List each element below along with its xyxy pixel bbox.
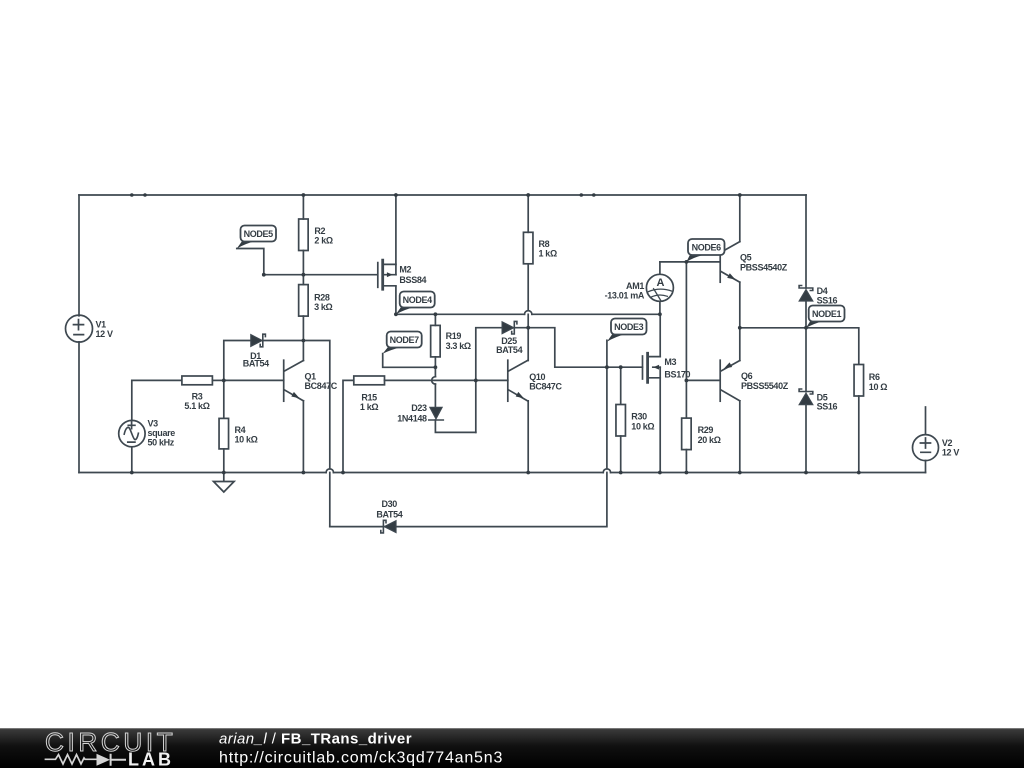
svg-text:NODE4: NODE4 <box>403 295 433 305</box>
junction R30 top <box>619 365 623 369</box>
wire NODE6 drop to Q6 base row <box>685 262 687 381</box>
junction Q6 collector at bottom rail <box>738 471 742 475</box>
junction NODE5 at gate row <box>262 273 266 277</box>
svg-text:12 V: 12 V <box>96 329 113 339</box>
wire R2 top stub <box>302 195 304 219</box>
wire R2 bottom stub <box>302 251 304 275</box>
svg-text:PBSS4540Z: PBSS4540Z <box>740 263 788 273</box>
junction top rail segment dot b <box>143 193 147 197</box>
svg-text:NODE6: NODE6 <box>692 243 722 253</box>
svg-text:BAT54: BAT54 <box>496 345 522 355</box>
resistor R8 <box>523 232 533 263</box>
resistor R15 <box>354 376 385 385</box>
junction top rail segment dot d <box>592 193 596 197</box>
junction Q5 Q6 output <box>738 326 742 330</box>
junction R19 bottom NODE7 <box>434 365 438 369</box>
svg-text:R4: R4 <box>235 425 246 435</box>
wire R30 bottom stub <box>620 436 622 473</box>
wire NODE5 L-stub <box>237 249 264 275</box>
junction M2 source at rail <box>394 193 398 197</box>
svg-text:R15: R15 <box>361 392 377 402</box>
wire R8 bottom leg to D25 junction <box>527 264 529 328</box>
wire R19 bottom junction down to D23 <box>434 367 436 407</box>
svg-text:-13.01 mA: -13.01 mA <box>605 290 645 300</box>
junction R2 R28 gate row <box>302 273 306 277</box>
junction Q6 base R29 <box>685 379 689 383</box>
wire R28 bottom stub <box>302 316 304 340</box>
junction NODE4 at AM1 <box>658 312 662 316</box>
wire Q1 emitter down to bottom rail <box>302 401 304 473</box>
svg-text:1 kΩ: 1 kΩ <box>360 402 378 412</box>
svg-text:1 kΩ: 1 kΩ <box>539 249 557 259</box>
svg-text:BC847C: BC847C <box>529 381 562 391</box>
wire Q5 emitter down to output junction <box>739 282 741 328</box>
svg-text:20 kΩ: 20 kΩ <box>698 435 721 445</box>
junction NODE4 at M2 drain <box>394 312 398 316</box>
resistor R19 <box>431 325 441 357</box>
wire Q1 collector up to D1 row <box>302 341 304 361</box>
wire NODE1 to R6 branch <box>806 328 859 365</box>
wire R4 top stub <box>223 380 225 418</box>
wire NODE6 row <box>660 261 720 263</box>
junction M3 source at bottom rail <box>658 471 662 475</box>
wire R15 left leg <box>343 380 354 472</box>
svg-text:V2: V2 <box>942 438 953 448</box>
svg-text:R2: R2 <box>314 226 325 236</box>
MOSFET M2 BSS84 <box>378 260 396 289</box>
wire NODE1 junction to D5 <box>805 328 807 392</box>
junction top rail segment dot a <box>130 193 134 197</box>
svg-text:PBSS5540Z: PBSS5540Z <box>741 381 789 391</box>
resistor R30 <box>616 405 626 437</box>
wire M2 drain pin down to NODE4 <box>395 287 397 315</box>
svg-text:M2: M2 <box>399 265 411 275</box>
logo diode symbol <box>97 754 111 766</box>
node NODE1 <box>806 306 845 328</box>
svg-text:10 kΩ: 10 kΩ <box>235 435 258 445</box>
wire D5 anode to bottom rail <box>805 405 807 473</box>
wire D1 row junction right to D30 left leg <box>303 341 329 527</box>
wire R29 bottom stub <box>685 450 687 473</box>
node NODE7 <box>383 332 422 354</box>
svg-text:10 kΩ: 10 kΩ <box>631 422 654 432</box>
wire gate row NODE5 to M2 gate <box>264 274 377 276</box>
svg-text:3 kΩ: 3 kΩ <box>314 302 332 312</box>
resistor R28 <box>299 285 309 317</box>
logo resistor squiggle <box>45 755 97 764</box>
junction R4 ground at bottom rail <box>222 471 226 475</box>
wire D1 left leg up from base row <box>224 341 251 381</box>
svg-text:3.3 kΩ: 3.3 kΩ <box>446 341 471 351</box>
voltage source V1 <box>66 315 93 342</box>
diode D23 1N4148 <box>429 407 444 420</box>
junction output NODE1 <box>804 326 808 330</box>
svg-text:D30: D30 <box>381 499 397 509</box>
junction R8 top <box>526 193 530 197</box>
svg-text:5.1 kΩ: 5.1 kΩ <box>184 401 209 411</box>
diode D30 BAT54 <box>381 520 396 533</box>
wire M3 drain up to NODE4 junction <box>659 314 661 356</box>
voltage source V3 <box>119 420 145 446</box>
junction R3 R4 D1 base row <box>222 379 226 383</box>
wire NODE4 row <box>396 313 660 315</box>
transistor Q1 BC847C <box>284 360 304 401</box>
wire R4 bottom stub <box>223 449 225 473</box>
diode D4 SS16 <box>799 286 813 302</box>
svg-text:M3: M3 <box>664 357 676 367</box>
wire V3 bottom stub <box>131 447 133 473</box>
wire R29 top stub <box>685 380 687 418</box>
svg-text:2 kΩ: 2 kΩ <box>314 236 332 246</box>
wire Q6 emitter up to output junction <box>739 328 741 361</box>
resistor R3 <box>182 376 213 385</box>
svg-text:LAB: LAB <box>128 749 174 768</box>
junction NODE3 at M3 gate row <box>605 365 609 369</box>
MOSFET M3 BS170 <box>643 353 661 382</box>
wire AM1 top stub to NODE6 row <box>659 262 661 274</box>
svg-text:BAT54: BAT54 <box>376 510 402 520</box>
wire NODE7 L-stub <box>383 354 436 368</box>
svg-text:BSS84: BSS84 <box>399 275 426 285</box>
junction Q5 collector at rail <box>738 193 742 197</box>
wire D4 anode to NODE1 junction <box>805 301 807 328</box>
wire Q10 emitter down to bottom rail <box>527 401 529 473</box>
node NODE3 <box>607 319 647 342</box>
transistor Q10 BC847C <box>508 360 528 401</box>
ammeter AM1 <box>646 274 673 301</box>
node NODE6 <box>686 239 724 262</box>
wire R19 bottom stub <box>434 357 436 367</box>
transistor Q5 PBSS4540Z <box>720 242 740 283</box>
wire R15 right to Q10 base <box>385 379 508 381</box>
wire top supply rail <box>79 194 806 196</box>
wire hop NODE4 row over R8 leg <box>525 311 532 315</box>
wire D25 cathode to R8 junction <box>514 327 528 329</box>
svg-text:10 Ω: 10 Ω <box>869 382 887 392</box>
svg-text:http://circuitlab.com/ck3qd774: http://circuitlab.com/ck3qd774an5n3 <box>219 750 503 767</box>
svg-text:R19: R19 <box>446 331 462 341</box>
wire D30 anode to right leg up to M3 gate row <box>397 367 607 526</box>
svg-text:D23: D23 <box>411 403 427 413</box>
svg-text:50 kHz: 50 kHz <box>148 438 175 448</box>
wire hop bottom rail over D30 right leg <box>603 469 610 473</box>
wire right column rail to D4 <box>805 195 807 288</box>
svg-text:square: square <box>148 428 176 438</box>
junction top rail segment dot c <box>580 193 584 197</box>
svg-text:BS170: BS170 <box>664 370 690 380</box>
diode D1 BAT54 <box>251 334 266 347</box>
junction R6 at bottom rail <box>857 471 861 475</box>
voltage source V2 <box>913 435 939 461</box>
wire M2 source pin up to rail <box>395 195 397 275</box>
wire hop bottom rail over D30 left leg <box>326 469 333 473</box>
svg-text:BAT54: BAT54 <box>243 359 269 369</box>
ground <box>214 473 235 493</box>
resistor R6 <box>854 365 864 397</box>
svg-text:Q5: Q5 <box>740 253 752 263</box>
svg-text:AM1: AM1 <box>626 281 644 291</box>
svg-text:1N4148: 1N4148 <box>397 414 427 424</box>
wire D23 bottom L to x475 riser <box>435 420 475 432</box>
junction D25 R8 Q10 collector <box>526 326 530 330</box>
resistor R29 <box>682 418 692 450</box>
svg-text:Q1: Q1 <box>305 372 317 382</box>
svg-text:A: A <box>656 277 664 289</box>
wire AM1 bottom stub to NODE4 junction <box>659 302 661 315</box>
svg-text:R30: R30 <box>631 411 647 421</box>
svg-text:V3: V3 <box>148 419 159 429</box>
wire M3 source down to bottom rail <box>659 367 661 472</box>
resistor R4 <box>219 418 229 449</box>
junction R15 leg at bottom rail <box>341 471 345 475</box>
wire D25 junction to M3 gate row <box>528 328 607 368</box>
wire bottom rail <box>79 472 926 474</box>
wire V2 bottom from rail <box>925 461 927 473</box>
wire x475 riser D23 row to D25 row <box>476 328 502 433</box>
wire base row junction to Q1 base <box>224 379 284 381</box>
svg-text:NODE3: NODE3 <box>614 322 644 332</box>
wire R6 bottom stub <box>858 396 860 473</box>
svg-text:R3: R3 <box>192 392 203 402</box>
svg-text:SS16: SS16 <box>817 296 838 306</box>
junction D1 R28 Q1 collector <box>302 339 306 343</box>
junction R29 at bottom rail <box>685 471 689 475</box>
wire R28 top stub <box>302 275 304 285</box>
diode D25 BAT54 <box>502 321 517 334</box>
junction D5 at bottom rail <box>804 471 808 475</box>
wire hop D23 leg over R15 row <box>432 377 436 384</box>
node NODE5 <box>237 226 276 249</box>
svg-text:BC847C: BC847C <box>305 381 338 391</box>
diode D5 SS16 <box>799 389 813 405</box>
wire D1 cathode to R28 bottom junction <box>263 340 304 342</box>
wire V3 top stub to R3 <box>132 380 182 420</box>
wire Q6 collector down to bottom rail <box>739 401 741 473</box>
junction R30 at bottom rail <box>619 471 623 475</box>
transistor Q6 PBSS5540Z <box>720 360 740 401</box>
junction Q10 emitter at bottom rail <box>526 471 530 475</box>
svg-text:arian_l / FB_TRans_driver: arian_l / FB_TRans_driver <box>219 731 412 748</box>
svg-text:SS16: SS16 <box>817 402 838 412</box>
wire R3 right to base row junction <box>212 379 223 381</box>
svg-text:R29: R29 <box>698 425 714 435</box>
svg-text:NODE7: NODE7 <box>390 335 420 345</box>
junction Q1 emitter at bottom rail <box>302 471 306 475</box>
node NODE4 <box>396 292 435 315</box>
svg-text:R6: R6 <box>869 372 880 382</box>
wire output row Q5/Q6 to NODE1 <box>740 327 806 329</box>
svg-text:R28: R28 <box>314 293 330 303</box>
svg-text:R8: R8 <box>539 239 550 249</box>
wire R30 top stub <box>620 367 622 404</box>
wire left column V1 top <box>78 195 80 316</box>
resistor R2 <box>299 219 309 251</box>
wire Q10 collector up to D25 junction <box>527 328 529 361</box>
junction R2 top <box>302 193 306 197</box>
wire left column V1 bottom <box>78 342 80 473</box>
junction R15 D23 riser <box>474 379 478 383</box>
junction NODE6 row <box>685 260 689 264</box>
svg-text:Q10: Q10 <box>529 372 545 382</box>
svg-text:Q6: Q6 <box>741 371 753 381</box>
wire D30 row left corner <box>330 526 384 528</box>
junction V3 at bottom rail <box>130 471 134 475</box>
svg-text:NODE1: NODE1 <box>812 309 842 319</box>
wire R19 top stub <box>434 314 436 325</box>
wire M3 gate row NODE3 junction to gate <box>607 366 643 368</box>
junction R19 top <box>434 312 438 316</box>
svg-text:V1: V1 <box>96 320 107 330</box>
wire R8 top stub <box>527 195 529 232</box>
wire Q6 base row <box>686 379 719 381</box>
wire Q5 collector up to rail <box>739 195 741 242</box>
wire NODE3 stub <box>606 340 608 367</box>
wire V2 top stub <box>925 407 927 435</box>
svg-text:NODE5: NODE5 <box>244 229 274 239</box>
svg-text:12 V: 12 V <box>942 448 959 458</box>
